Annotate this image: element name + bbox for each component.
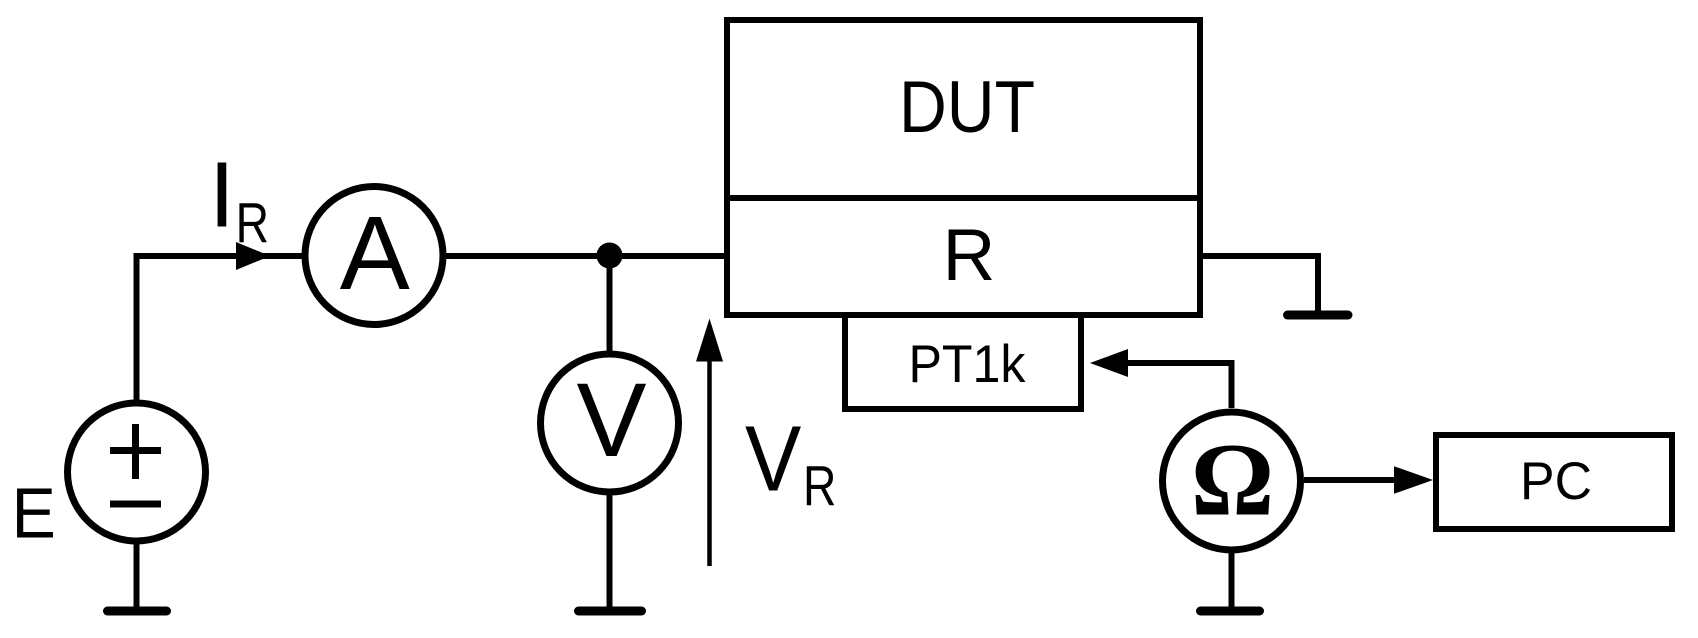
svg-text:V: V bbox=[745, 407, 801, 511]
svg-text:PC: PC bbox=[1520, 452, 1592, 511]
svg-text:PT1k: PT1k bbox=[909, 335, 1026, 394]
svg-text:I: I bbox=[209, 143, 235, 247]
svg-text:Ω: Ω bbox=[1191, 423, 1274, 538]
svg-text:R: R bbox=[943, 215, 996, 296]
svg-text:R: R bbox=[803, 454, 836, 517]
svg-text:V: V bbox=[576, 362, 646, 479]
svg-text:A: A bbox=[340, 195, 410, 312]
svg-text:R: R bbox=[236, 191, 269, 254]
svg-text:DUT: DUT bbox=[899, 67, 1035, 148]
svg-text:E: E bbox=[12, 474, 56, 554]
